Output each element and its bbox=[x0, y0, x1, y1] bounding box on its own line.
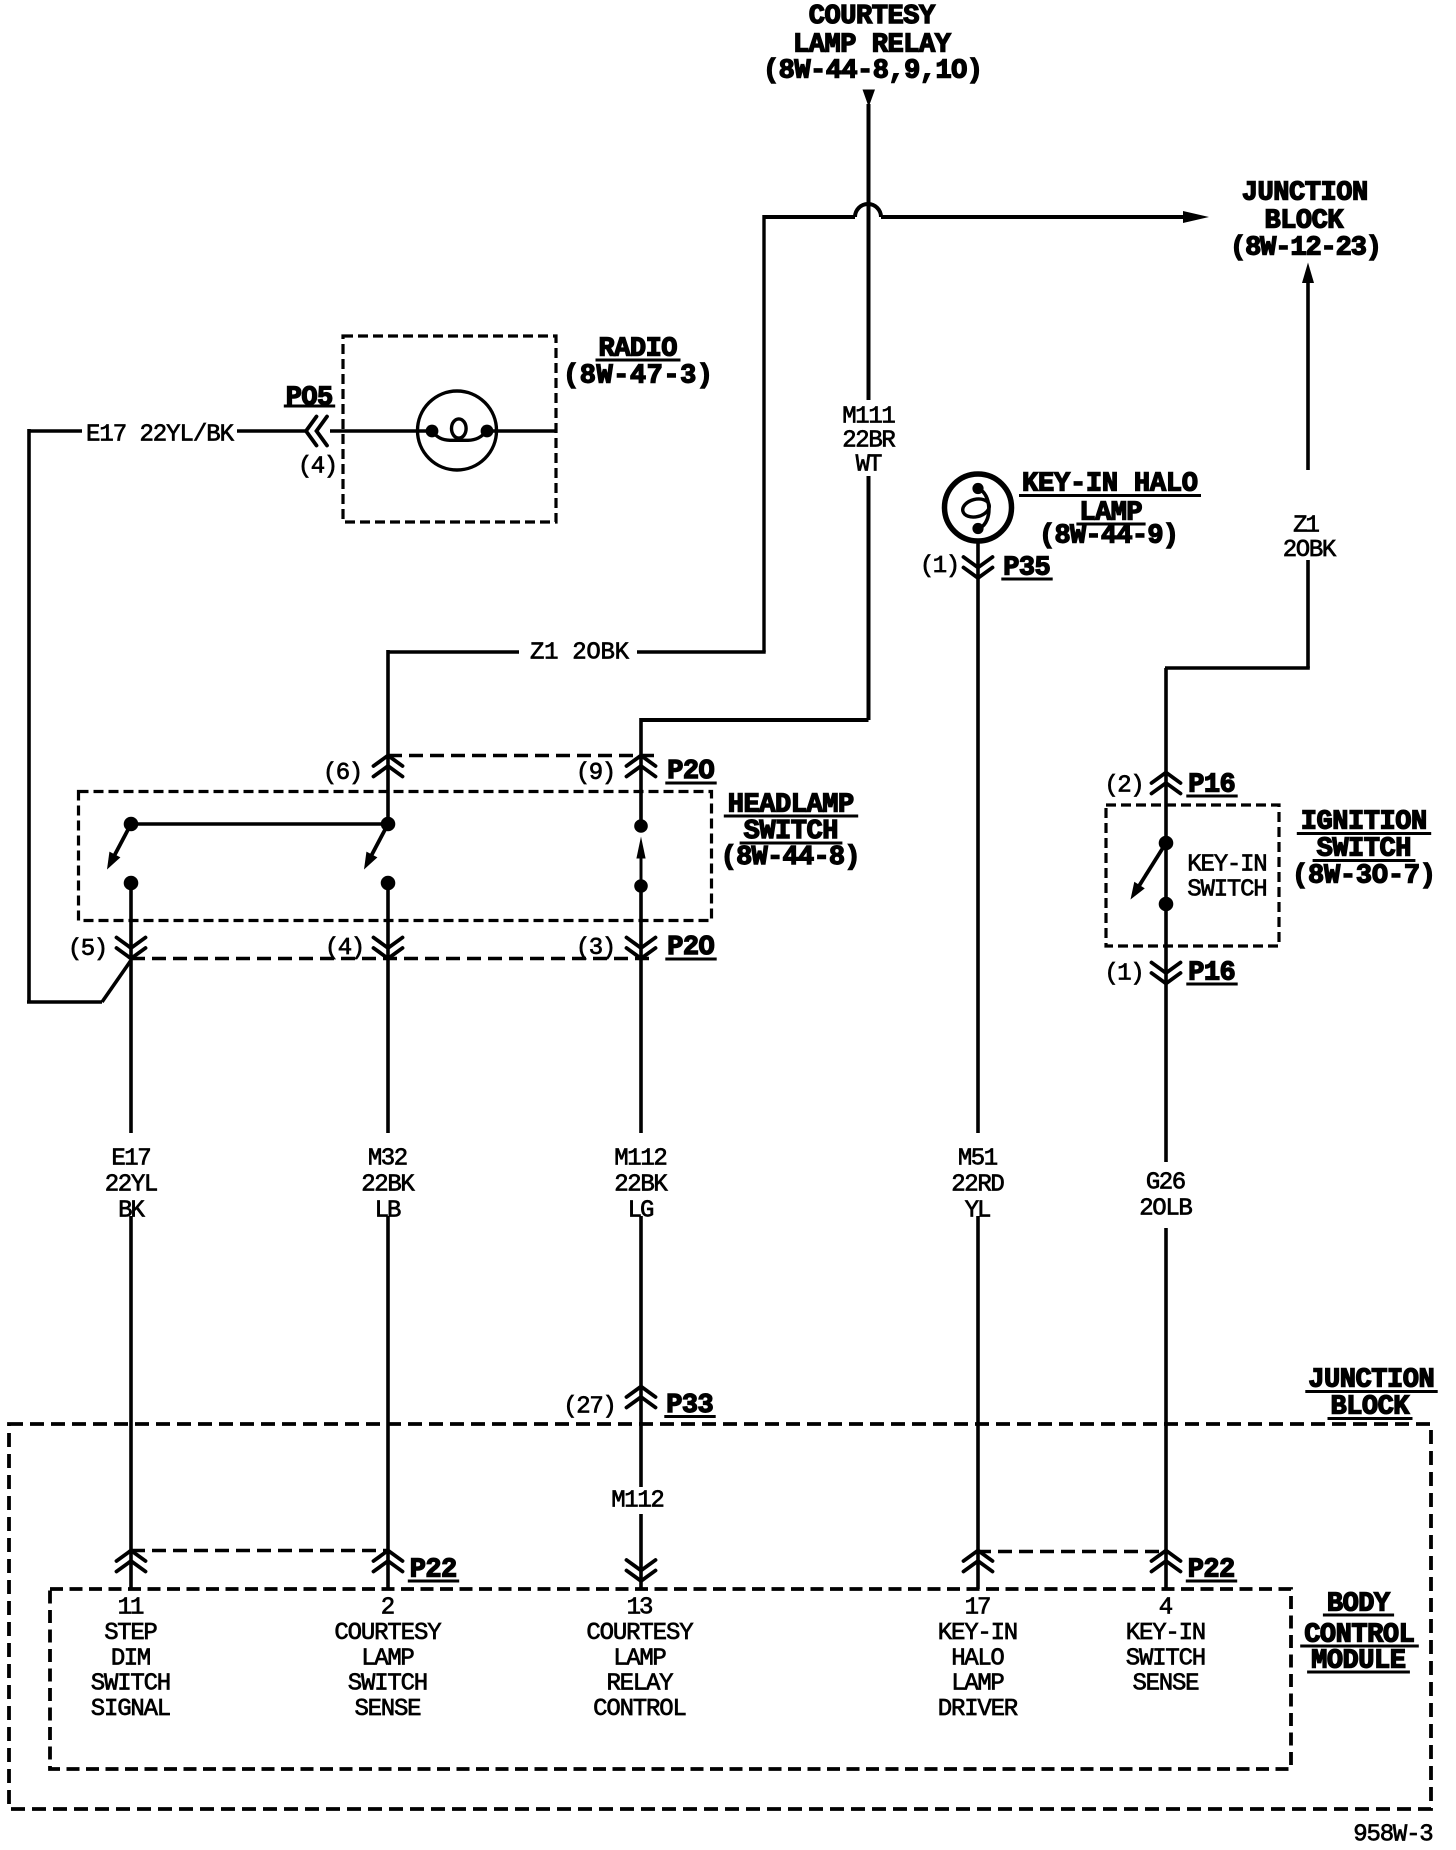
svg-text:KEY-IN: KEY-IN bbox=[1126, 1620, 1206, 1647]
svg-text:(1): (1) bbox=[920, 553, 960, 580]
svg-text:E17 22YL/BK: E17 22YL/BK bbox=[86, 422, 235, 449]
svg-text:LAMP: LAMP bbox=[951, 1671, 1005, 1698]
svg-text:(8W-47-3): (8W-47-3) bbox=[563, 362, 713, 392]
svg-text:(2): (2) bbox=[1104, 773, 1144, 800]
svg-text:4: 4 bbox=[1159, 1595, 1173, 1622]
svg-text:BK: BK bbox=[118, 1198, 145, 1225]
svg-text:(8W-44-9): (8W-44-9) bbox=[1039, 522, 1179, 552]
svg-text:DRIVER: DRIVER bbox=[938, 1696, 1018, 1723]
svg-text:M111: M111 bbox=[842, 404, 896, 431]
svg-text:HALO: HALO bbox=[951, 1645, 1005, 1672]
svg-text:11: 11 bbox=[118, 1595, 145, 1622]
svg-text:22BK: 22BK bbox=[361, 1172, 415, 1199]
svg-text:SWITCH: SWITCH bbox=[1126, 1645, 1206, 1672]
svg-text:SWITCH: SWITCH bbox=[91, 1671, 171, 1698]
svg-text:(8W-3O-7): (8W-3O-7) bbox=[1292, 862, 1436, 892]
svg-text:RELAY: RELAY bbox=[607, 1671, 674, 1698]
svg-text:(8W-44-8,9,1O): (8W-44-8,9,1O) bbox=[763, 57, 983, 87]
svg-text:LB: LB bbox=[375, 1198, 402, 1225]
svg-text:22BR: 22BR bbox=[842, 428, 896, 455]
svg-text:M51: M51 bbox=[958, 1146, 998, 1173]
svg-text:JUNCTION: JUNCTION bbox=[1242, 179, 1368, 209]
svg-text:13: 13 bbox=[627, 1595, 654, 1622]
svg-text:PO5: PO5 bbox=[286, 384, 333, 414]
svg-text:SWITCH: SWITCH bbox=[1187, 877, 1267, 904]
svg-text:SWITCH: SWITCH bbox=[348, 1671, 428, 1698]
svg-text:BLOCK: BLOCK bbox=[1265, 207, 1345, 237]
svg-text:COURTESY: COURTESY bbox=[809, 2, 936, 32]
svg-text:LG: LG bbox=[628, 1198, 655, 1225]
svg-text:17: 17 bbox=[965, 1595, 992, 1622]
svg-text:Z1: Z1 bbox=[1293, 513, 1320, 540]
svg-text:(8W-12-23): (8W-12-23) bbox=[1230, 234, 1382, 264]
svg-text:(4): (4) bbox=[298, 454, 338, 481]
svg-text:(3): (3) bbox=[576, 935, 616, 962]
svg-text:2OLB: 2OLB bbox=[1139, 1196, 1193, 1223]
svg-text:G26: G26 bbox=[1146, 1170, 1186, 1197]
svg-text:22YL: 22YL bbox=[105, 1172, 159, 1199]
svg-text:M32: M32 bbox=[368, 1146, 408, 1173]
svg-text:SENSE: SENSE bbox=[355, 1696, 422, 1723]
svg-text:2OBK: 2OBK bbox=[1283, 537, 1337, 564]
svg-text:M112: M112 bbox=[611, 1488, 665, 1515]
svg-text:DIM: DIM bbox=[111, 1645, 151, 1672]
svg-text:(4): (4) bbox=[325, 935, 365, 962]
svg-text:M112: M112 bbox=[614, 1146, 668, 1173]
svg-text:(8W-44-8): (8W-44-8) bbox=[721, 843, 861, 873]
svg-text:KEY-IN: KEY-IN bbox=[1187, 852, 1267, 879]
svg-text:22BK: 22BK bbox=[614, 1172, 668, 1199]
svg-text:22RD: 22RD bbox=[951, 1172, 1005, 1199]
svg-text:COURTESY: COURTESY bbox=[586, 1620, 693, 1647]
svg-text:(27): (27) bbox=[563, 1394, 617, 1421]
svg-text:COURTESY: COURTESY bbox=[334, 1620, 441, 1647]
svg-text:STEP: STEP bbox=[104, 1620, 158, 1647]
svg-text:SENSE: SENSE bbox=[1133, 1671, 1200, 1698]
svg-text:2: 2 bbox=[381, 1595, 395, 1622]
svg-text:Z1 2OBK: Z1 2OBK bbox=[530, 640, 630, 667]
svg-text:(9): (9) bbox=[576, 760, 616, 787]
svg-text:LAMP: LAMP bbox=[361, 1645, 415, 1672]
svg-text:E17: E17 bbox=[111, 1146, 151, 1173]
svg-text:YL: YL bbox=[965, 1198, 992, 1225]
svg-text:WT: WT bbox=[856, 452, 883, 479]
svg-text:KEY-IN: KEY-IN bbox=[938, 1620, 1018, 1647]
svg-text:(6): (6) bbox=[323, 760, 363, 787]
svg-text:SIGNAL: SIGNAL bbox=[91, 1696, 171, 1723]
svg-text:CONTROL: CONTROL bbox=[593, 1696, 687, 1723]
svg-text:(5): (5) bbox=[68, 936, 108, 963]
svg-text:958W-3: 958W-3 bbox=[1353, 1822, 1433, 1849]
svg-text:LAMP: LAMP bbox=[613, 1645, 667, 1672]
svg-text:(1): (1) bbox=[1104, 961, 1144, 988]
